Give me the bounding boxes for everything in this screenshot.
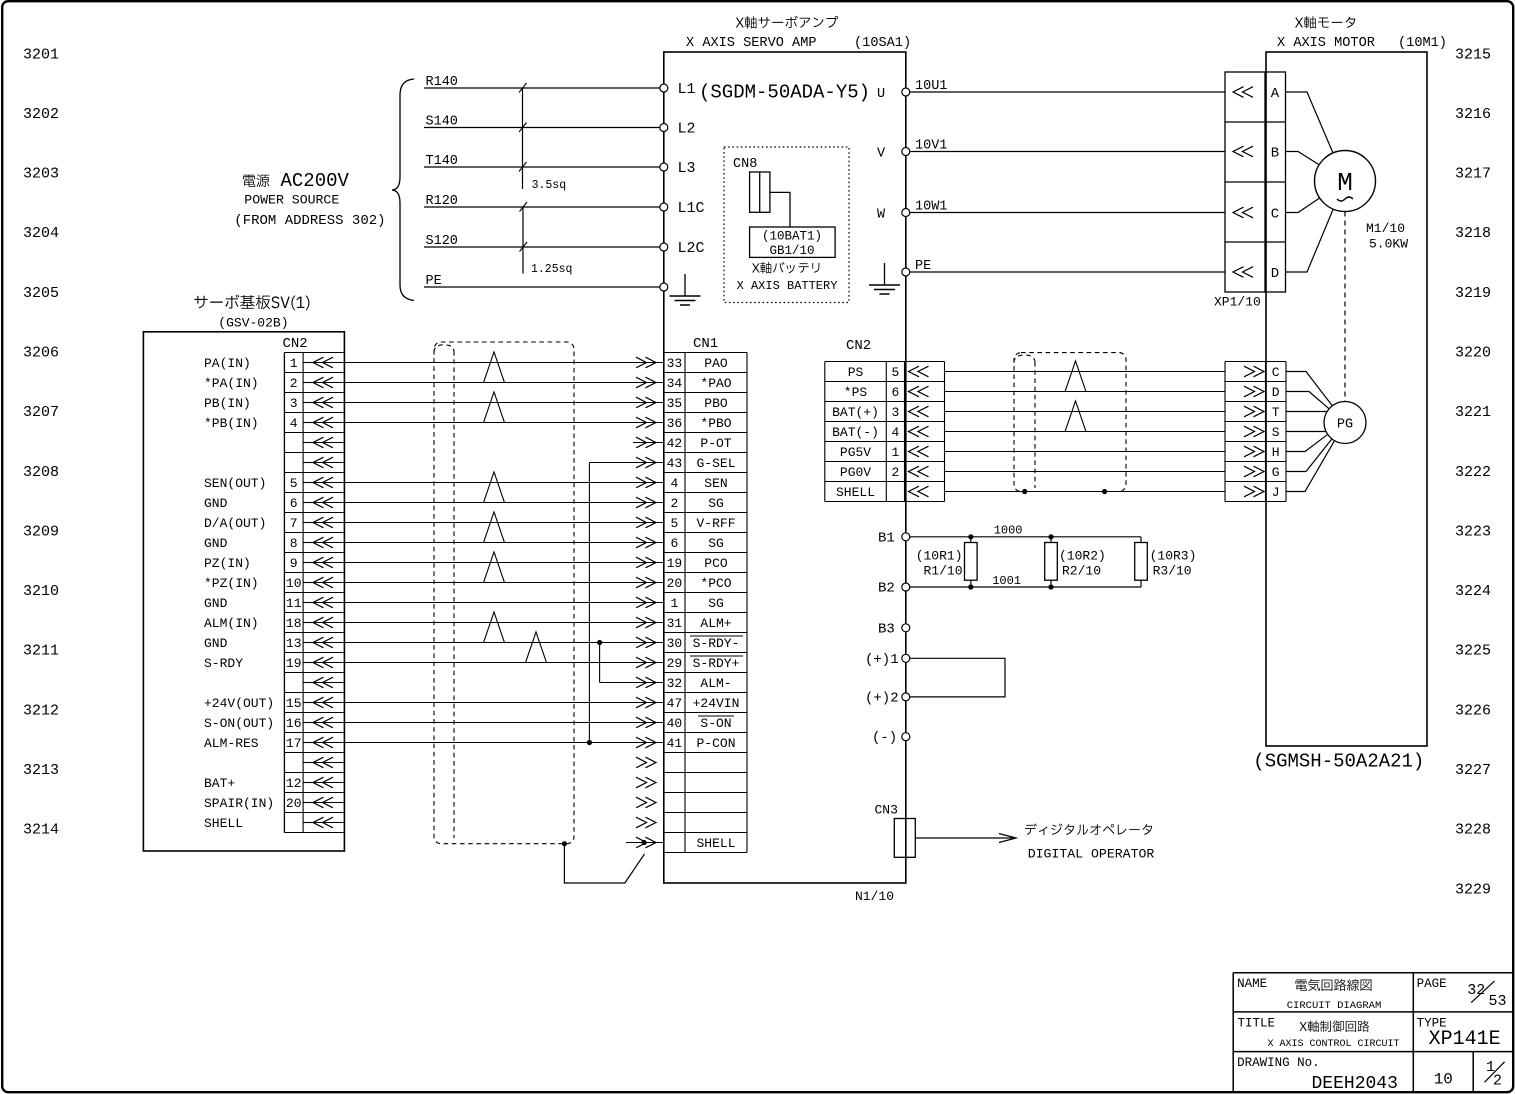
- svg-text:W: W: [877, 208, 886, 223]
- svg-text:SHELL: SHELL: [204, 816, 243, 831]
- svg-text:11: 11: [286, 596, 302, 611]
- svg-text:*PA(IN): *PA(IN): [204, 376, 259, 391]
- svg-text:3220: 3220: [1455, 345, 1491, 362]
- svg-text:ALM+: ALM+: [700, 616, 731, 631]
- svg-text:3225: 3225: [1455, 643, 1491, 660]
- svg-text:PE: PE: [426, 274, 442, 289]
- svg-text:X AXIS SERVO AMP: X AXIS SERVO AMP: [686, 36, 817, 51]
- svg-text:36: 36: [667, 416, 683, 431]
- svg-text:6: 6: [290, 496, 298, 511]
- svg-text:CN1: CN1: [693, 336, 718, 352]
- svg-text:SEN(OUT): SEN(OUT): [204, 476, 266, 491]
- svg-text:G: G: [1272, 465, 1280, 480]
- svg-text:GND: GND: [204, 536, 228, 551]
- svg-text:10V1: 10V1: [915, 139, 947, 154]
- svg-text:SG: SG: [708, 536, 724, 551]
- svg-text:DEEH2043: DEEH2043: [1312, 1074, 1398, 1094]
- svg-text:3201: 3201: [23, 46, 59, 63]
- svg-text:(10R3): (10R3): [1150, 549, 1197, 564]
- svg-text:S120: S120: [426, 234, 458, 249]
- svg-text:ALM(IN): ALM(IN): [204, 616, 259, 631]
- svg-text:S-RDY+: S-RDY+: [693, 656, 740, 671]
- svg-text:X AXIS MOTOR: X AXIS MOTOR: [1277, 36, 1375, 51]
- svg-text:CN3: CN3: [875, 803, 898, 818]
- svg-text:35: 35: [667, 396, 683, 411]
- svg-text:7: 7: [290, 516, 298, 531]
- svg-text:(-): (-): [872, 730, 897, 746]
- svg-text:B2: B2: [878, 581, 895, 597]
- svg-text:3.5sq: 3.5sq: [532, 179, 567, 192]
- svg-text:5: 5: [670, 516, 678, 531]
- svg-text:SPAIR(IN): SPAIR(IN): [204, 796, 274, 811]
- svg-text:47: 47: [667, 696, 683, 711]
- svg-text:M: M: [1337, 168, 1353, 198]
- svg-text:J: J: [1272, 485, 1280, 500]
- svg-text:L2C: L2C: [678, 240, 705, 257]
- svg-text:1000: 1000: [994, 524, 1023, 538]
- svg-text:3: 3: [290, 396, 298, 411]
- svg-text:3212: 3212: [23, 702, 59, 719]
- svg-text:X AXIS BATTERY: X AXIS BATTERY: [737, 279, 838, 293]
- svg-text:3209: 3209: [23, 523, 59, 540]
- svg-text:XP141E: XP141E: [1429, 1028, 1501, 1051]
- svg-text:TITLE: TITLE: [1238, 1017, 1276, 1031]
- svg-text:3: 3: [891, 405, 899, 420]
- svg-text:S-RDY-: S-RDY-: [693, 636, 740, 651]
- svg-text:L3: L3: [678, 160, 696, 177]
- svg-text:PCO: PCO: [704, 556, 728, 571]
- svg-text:L2: L2: [678, 121, 696, 138]
- svg-text:31: 31: [667, 616, 683, 631]
- svg-text:3229: 3229: [1455, 881, 1491, 898]
- svg-text:3213: 3213: [23, 762, 59, 779]
- svg-text:T: T: [1272, 405, 1280, 420]
- svg-text:20: 20: [667, 576, 683, 591]
- svg-text:(SGMSH-50A2A21): (SGMSH-50A2A21): [1253, 751, 1424, 773]
- svg-text:3202: 3202: [23, 106, 59, 123]
- svg-text:S-RDY: S-RDY: [204, 656, 243, 671]
- svg-text:29: 29: [667, 656, 683, 671]
- svg-text:*PBO: *PBO: [700, 416, 731, 431]
- svg-text:M1/10: M1/10: [1366, 221, 1405, 236]
- svg-text:4: 4: [670, 476, 678, 491]
- svg-text:CN2: CN2: [283, 336, 308, 352]
- svg-text:3215: 3215: [1455, 46, 1491, 63]
- svg-text:L1: L1: [678, 81, 696, 98]
- svg-text:SHELL: SHELL: [836, 485, 875, 500]
- svg-text:1: 1: [670, 596, 678, 611]
- svg-text:(+)1: (+)1: [865, 652, 899, 668]
- svg-text:3223: 3223: [1455, 523, 1491, 540]
- svg-text:3211: 3211: [23, 643, 59, 660]
- svg-text:(10BAT1): (10BAT1): [762, 230, 822, 244]
- svg-text:NAME: NAME: [1237, 977, 1267, 991]
- svg-text:PE: PE: [915, 259, 931, 274]
- svg-text:*PZ(IN): *PZ(IN): [204, 576, 259, 591]
- svg-text:53: 53: [1489, 993, 1507, 1010]
- svg-text:AC200V: AC200V: [281, 170, 350, 192]
- svg-text:POWER SOURCE: POWER SOURCE: [244, 193, 339, 208]
- svg-text:SG: SG: [708, 596, 724, 611]
- svg-text:C: C: [1272, 365, 1280, 380]
- svg-text:PG: PG: [1337, 418, 1353, 433]
- svg-text:A: A: [1271, 86, 1280, 102]
- svg-text:(10SA1): (10SA1): [854, 36, 911, 51]
- svg-text:C: C: [1271, 207, 1279, 223]
- svg-text:U: U: [877, 87, 885, 102]
- svg-text:10W1: 10W1: [915, 200, 947, 215]
- svg-text:2: 2: [891, 465, 899, 480]
- svg-text:T140: T140: [426, 154, 458, 169]
- svg-text:3226: 3226: [1455, 702, 1491, 719]
- svg-text:G-SEL: G-SEL: [696, 456, 735, 471]
- svg-text:V: V: [877, 147, 886, 162]
- svg-text:DRAWING No.: DRAWING No.: [1237, 1056, 1320, 1070]
- svg-text:33: 33: [667, 356, 683, 371]
- svg-text:4: 4: [290, 416, 298, 431]
- svg-text:43: 43: [667, 456, 683, 471]
- svg-text:ALM-: ALM-: [700, 676, 731, 691]
- svg-text:3204: 3204: [23, 225, 59, 242]
- svg-text:9: 9: [290, 556, 298, 571]
- svg-text:3222: 3222: [1455, 464, 1491, 481]
- svg-text:S-ON: S-ON: [700, 716, 731, 731]
- svg-text:3217: 3217: [1455, 166, 1491, 183]
- svg-text:PA(IN): PA(IN): [204, 356, 251, 371]
- svg-text:CN8: CN8: [733, 157, 757, 172]
- svg-text:SEN: SEN: [704, 476, 727, 491]
- svg-text:CN2: CN2: [846, 338, 871, 354]
- svg-text:PB(IN): PB(IN): [204, 396, 251, 411]
- svg-text:ALM-RES: ALM-RES: [204, 736, 259, 751]
- svg-text:3208: 3208: [23, 464, 59, 481]
- svg-text:1001: 1001: [992, 574, 1021, 588]
- svg-text:3207: 3207: [23, 404, 59, 421]
- svg-text:+24VIN: +24VIN: [693, 696, 740, 711]
- svg-text:+24V(OUT): +24V(OUT): [204, 696, 274, 711]
- svg-text:*PS: *PS: [844, 385, 868, 400]
- svg-text:PG5V: PG5V: [840, 445, 871, 460]
- svg-text:2: 2: [670, 496, 678, 511]
- svg-text:6: 6: [891, 385, 899, 400]
- svg-text:15: 15: [286, 696, 302, 711]
- svg-text:42: 42: [667, 436, 683, 451]
- svg-text:32: 32: [667, 676, 683, 691]
- svg-text:GND: GND: [204, 596, 228, 611]
- svg-text:34: 34: [667, 376, 683, 391]
- svg-text:13: 13: [286, 636, 302, 651]
- svg-text:3228: 3228: [1455, 822, 1491, 839]
- svg-text:BAT(+): BAT(+): [832, 405, 879, 420]
- svg-text:3227: 3227: [1455, 762, 1491, 779]
- svg-text:L1C: L1C: [678, 200, 705, 217]
- svg-text:3221: 3221: [1455, 404, 1491, 421]
- svg-text:2: 2: [290, 376, 298, 391]
- svg-text:32: 32: [1467, 982, 1485, 999]
- svg-text:X AXIS CONTROL CIRCUIT: X AXIS CONTROL CIRCUIT: [1267, 1039, 1399, 1050]
- svg-text:N1/10: N1/10: [855, 889, 894, 904]
- svg-text:16: 16: [286, 716, 302, 731]
- svg-text:(10M1): (10M1): [1398, 36, 1447, 51]
- svg-text:SG: SG: [708, 496, 724, 511]
- svg-text:S140: S140: [426, 115, 458, 130]
- svg-text:*PAO: *PAO: [700, 376, 731, 391]
- svg-text:3206: 3206: [23, 345, 59, 362]
- svg-text:19: 19: [667, 556, 683, 571]
- svg-text:D: D: [1271, 266, 1279, 282]
- svg-text:3218: 3218: [1455, 225, 1491, 242]
- svg-text:D: D: [1272, 385, 1280, 400]
- svg-text:3219: 3219: [1455, 285, 1491, 302]
- svg-text:*PCO: *PCO: [700, 576, 731, 591]
- svg-text:10: 10: [286, 576, 302, 591]
- svg-text:S-ON(OUT): S-ON(OUT): [204, 716, 274, 731]
- svg-text:GB1/10: GB1/10: [769, 244, 814, 258]
- svg-text:R140: R140: [426, 75, 458, 90]
- svg-text:PAO: PAO: [704, 356, 728, 371]
- svg-text:XP1/10: XP1/10: [1214, 295, 1261, 310]
- svg-text:1.25sq: 1.25sq: [531, 263, 572, 276]
- svg-text:3205: 3205: [23, 285, 59, 302]
- svg-text:5.0KW: 5.0KW: [1369, 237, 1408, 252]
- svg-text:6: 6: [670, 536, 678, 551]
- svg-text:40: 40: [667, 716, 683, 731]
- svg-text:BAT(-): BAT(-): [832, 425, 879, 440]
- svg-text:2: 2: [1493, 1073, 1502, 1090]
- svg-text:B3: B3: [878, 621, 895, 637]
- svg-text:3203: 3203: [23, 166, 59, 183]
- svg-text:30: 30: [667, 636, 683, 651]
- svg-text:R3/10: R3/10: [1153, 564, 1192, 579]
- svg-text:PBO: PBO: [704, 396, 728, 411]
- svg-text:(GSV-02B): (GSV-02B): [218, 316, 288, 331]
- svg-text:GND: GND: [204, 496, 228, 511]
- svg-text:PS: PS: [848, 365, 864, 380]
- svg-text:(10R1): (10R1): [916, 549, 963, 564]
- svg-text:R1/10: R1/10: [923, 564, 962, 579]
- svg-text:18: 18: [286, 616, 302, 631]
- svg-text:3224: 3224: [1455, 583, 1491, 600]
- svg-text:DIGITAL OPERATOR: DIGITAL OPERATOR: [1028, 847, 1155, 862]
- svg-text:GND: GND: [204, 636, 228, 651]
- svg-text:R120: R120: [426, 194, 458, 209]
- svg-text:PAGE: PAGE: [1417, 977, 1447, 991]
- svg-text:PZ(IN): PZ(IN): [204, 556, 251, 571]
- svg-text:17: 17: [286, 736, 302, 751]
- svg-text:B1: B1: [878, 530, 895, 546]
- svg-text:V-RFF: V-RFF: [696, 516, 735, 531]
- svg-text:D/A(OUT): D/A(OUT): [204, 516, 266, 531]
- svg-text:(+)2: (+)2: [865, 690, 899, 706]
- svg-text:10U1: 10U1: [915, 79, 947, 94]
- svg-text:5: 5: [891, 365, 899, 380]
- svg-text:3210: 3210: [23, 583, 59, 600]
- svg-text:41: 41: [667, 736, 683, 751]
- svg-text:R2/10: R2/10: [1062, 564, 1101, 579]
- svg-text:CIRCUIT DIAGRAM: CIRCUIT DIAGRAM: [1287, 1000, 1382, 1012]
- svg-text:H: H: [1272, 445, 1280, 460]
- svg-text:4: 4: [891, 425, 899, 440]
- svg-text:SHELL: SHELL: [696, 836, 735, 851]
- svg-text:3214: 3214: [23, 822, 59, 839]
- svg-text:20: 20: [286, 796, 302, 811]
- svg-text:B: B: [1271, 146, 1279, 162]
- svg-text:1: 1: [290, 356, 298, 371]
- svg-text:PG0V: PG0V: [840, 465, 871, 480]
- svg-text:1: 1: [891, 445, 899, 460]
- svg-text:10: 10: [1434, 1071, 1453, 1089]
- svg-text:12: 12: [286, 776, 302, 791]
- svg-text:3216: 3216: [1455, 106, 1491, 123]
- svg-text:*PB(IN): *PB(IN): [204, 416, 259, 431]
- svg-text:5: 5: [290, 476, 298, 491]
- svg-text:19: 19: [286, 656, 302, 671]
- svg-text:S: S: [1272, 425, 1280, 440]
- svg-text:(SGDM-50ADA-Y5): (SGDM-50ADA-Y5): [699, 82, 870, 104]
- svg-text:(FROM ADDRESS 302): (FROM ADDRESS 302): [234, 213, 385, 229]
- svg-text:BAT+: BAT+: [204, 776, 235, 791]
- svg-text:(10R2): (10R2): [1059, 549, 1106, 564]
- svg-text:8: 8: [290, 536, 298, 551]
- svg-text:P-CON: P-CON: [696, 736, 735, 751]
- svg-text:P-OT: P-OT: [700, 436, 731, 451]
